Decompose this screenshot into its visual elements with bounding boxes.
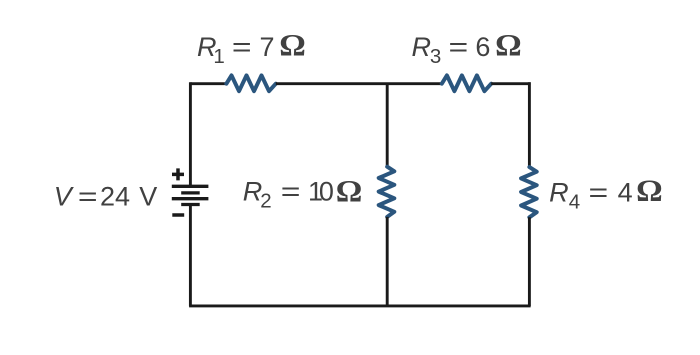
- svg-text:V: V: [139, 182, 157, 212]
- battery plate long top: [172, 185, 209, 188]
- wire left lower (battery to bottom): [189, 205, 192, 307]
- svg-text:V: V: [54, 182, 75, 212]
- svg-text:Ω: Ω: [636, 173, 663, 208]
- label V = 24 V: [54, 182, 157, 212]
- svg-text:=: =: [281, 176, 301, 206]
- wire middle upper: [386, 84, 389, 167]
- svg-text:1: 1: [213, 45, 224, 68]
- svg-text:=: =: [588, 178, 608, 208]
- wire top-left segment: [190, 82, 226, 85]
- svg-text:Ω: Ω: [279, 27, 306, 62]
- svg-text:Ω: Ω: [336, 173, 363, 208]
- battery plate short: [181, 191, 200, 194]
- resistor R3: [442, 75, 491, 91]
- svg-text:Ω: Ω: [495, 27, 522, 62]
- svg-text:2: 2: [100, 182, 115, 212]
- resistor R1: [226, 75, 275, 91]
- svg-text:4: 4: [618, 178, 633, 208]
- wire top-middle segment: [276, 82, 442, 85]
- svg-text:4: 4: [115, 182, 130, 212]
- wire top-right segment: [491, 82, 530, 85]
- wire right upper: [528, 82, 531, 167]
- label R2 = 10 ohm: [243, 173, 363, 213]
- resistor R2: [379, 167, 395, 217]
- wire bottom: [189, 304, 530, 307]
- wire right lower: [528, 217, 531, 306]
- battery plate short bottom: [181, 203, 200, 206]
- svg-text:=: =: [232, 32, 252, 62]
- battery minus sign: [172, 213, 184, 217]
- label R3 = 6 ohm: [412, 27, 522, 68]
- resistor R4: [521, 167, 537, 217]
- svg-text:3: 3: [430, 45, 441, 68]
- svg-text:0: 0: [319, 176, 334, 206]
- battery plus sign: [172, 168, 184, 180]
- battery plate long: [172, 197, 209, 200]
- svg-text:R: R: [412, 32, 432, 62]
- svg-text:=: =: [449, 32, 469, 62]
- label R4 = 4 ohm: [549, 173, 663, 214]
- svg-text:R: R: [549, 178, 569, 208]
- svg-text:4: 4: [569, 191, 580, 214]
- svg-text:R: R: [243, 176, 263, 206]
- label R1 = 7 ohm: [197, 27, 306, 68]
- wire left upper (to battery): [189, 82, 192, 186]
- svg-text:6: 6: [475, 32, 490, 62]
- svg-text:=: =: [78, 182, 98, 212]
- wire middle lower: [386, 217, 389, 306]
- svg-text:2: 2: [260, 190, 271, 213]
- svg-text:7: 7: [260, 32, 275, 62]
